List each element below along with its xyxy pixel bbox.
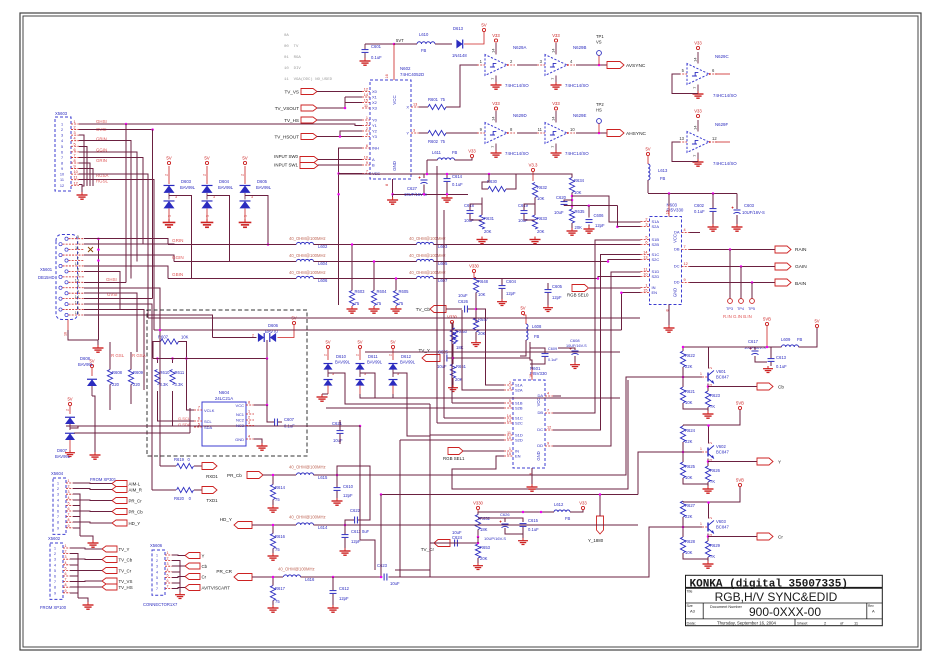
wire — [339, 173, 533, 175]
resistor R621 — [680, 387, 695, 405]
svg-text:2: 2 — [74, 126, 76, 130]
wire — [588, 224, 590, 226]
svg-text:INPUT SW1: INPUT SW1 — [274, 163, 298, 168]
capacitor C620 — [554, 195, 568, 215]
svg-text:V33: V33 — [579, 501, 587, 506]
svg-text:1N4148: 1N4148 — [452, 53, 467, 58]
power 5V — [481, 23, 486, 32]
svg-text:12pF: 12pF — [506, 291, 516, 296]
svg-text:VCC: VCC — [392, 95, 397, 104]
svg-text:5: 5 — [198, 423, 200, 427]
resistor R648 — [473, 278, 488, 298]
svg-text:74HC14/SO: 74HC14/SO — [713, 161, 737, 166]
svg-text:3: 3 — [709, 534, 713, 536]
svg-text:5V: 5V — [520, 306, 525, 311]
svg-text:RGB SEL1: RGB SEL1 — [443, 456, 465, 461]
svg-text:R629: R629 — [710, 543, 721, 548]
svg-text:C605: C605 — [552, 284, 563, 289]
svg-text:DD: DD — [674, 280, 680, 285]
wire — [153, 358, 267, 360]
svg-text:9: 9 — [366, 161, 368, 165]
junction — [272, 524, 275, 527]
capacitor C608 — [566, 338, 587, 355]
svg-text:20K: 20K — [575, 225, 583, 230]
svg-text:R624: R624 — [685, 428, 696, 433]
svg-text:6: 6 — [509, 404, 511, 408]
svg-text:10: 10 — [643, 273, 647, 277]
svg-text:75: 75 — [275, 599, 280, 604]
svg-text:15: 15 — [643, 289, 647, 293]
junction — [391, 193, 394, 196]
wire — [690, 282, 776, 284]
svg-text:10: 10 — [75, 300, 79, 304]
wire — [452, 378, 454, 385]
svg-text:40_OHM@100MHz: 40_OHM@100MHz — [289, 465, 326, 470]
wire — [690, 232, 701, 234]
wire — [393, 44, 395, 80]
svg-text:2: 2 — [356, 354, 360, 356]
inductor L604 — [289, 253, 328, 266]
wire — [272, 500, 274, 506]
junction — [272, 474, 275, 477]
junction — [540, 511, 543, 514]
power V33 — [552, 33, 560, 42]
svg-text:DC: DC — [537, 427, 543, 432]
ground — [88, 540, 99, 547]
wire — [522, 527, 524, 538]
gate N629F 74HC14 — [679, 120, 737, 166]
svg-text:0.1uF: 0.1uF — [528, 527, 539, 532]
svg-text:9: 9 — [77, 284, 79, 288]
svg-text:L614: L614 — [318, 525, 328, 530]
wire — [84, 310, 144, 390]
svg-text:GBIN: GBIN — [172, 272, 183, 277]
wire — [84, 266, 168, 279]
wire — [318, 164, 362, 166]
wire — [395, 543, 466, 570]
wire — [172, 583, 180, 590]
svg-text:5V: 5V — [390, 340, 395, 345]
svg-text:8: 8 — [77, 268, 79, 272]
svg-text:X3: X3 — [372, 106, 378, 111]
svg-text:C607: C607 — [284, 417, 295, 422]
svg-text:1: 1 — [645, 284, 647, 288]
wire — [576, 64, 607, 66]
wire — [474, 273, 476, 278]
flag TV_HSOUT — [274, 134, 317, 140]
wire — [84, 298, 153, 300]
wire — [588, 206, 590, 218]
svg-text:FB: FB — [797, 337, 803, 342]
svg-text:1: 1 — [57, 482, 59, 486]
svg-text:8: 8 — [248, 401, 250, 405]
wire — [212, 337, 256, 339]
resistor R633 — [532, 215, 547, 234]
svg-text:C609: C609 — [548, 347, 557, 351]
wire — [564, 205, 617, 207]
net GBIN label — [172, 272, 183, 277]
svg-text:2: 2 — [61, 128, 63, 132]
ground — [65, 450, 75, 456]
wire — [524, 204, 535, 210]
svg-text:4: 4 — [167, 568, 169, 572]
svg-text:R616: R616 — [275, 534, 286, 539]
wire — [708, 425, 710, 444]
wire — [336, 475, 338, 487]
svg-text:8: 8 — [68, 518, 70, 522]
svg-text:5V: 5V — [204, 156, 209, 161]
resistor R622 — [680, 351, 695, 369]
wire — [73, 517, 80, 536]
ic N601 PI5V330 — [504, 366, 553, 475]
junction — [668, 192, 671, 195]
svg-text:11: 11 — [364, 104, 368, 108]
flag RGB SEL1 — [443, 448, 465, 462]
svg-text:VCLK: VCLK — [204, 408, 215, 413]
svg-text:6: 6 — [198, 417, 200, 421]
wire — [375, 397, 620, 399]
svg-text:2: 2 — [709, 517, 713, 519]
resistor R630 — [487, 179, 506, 192]
svg-text:GHSI: GHSI — [106, 277, 117, 282]
resistor R609 — [128, 370, 143, 388]
flag Cr — [757, 533, 783, 540]
wire — [345, 520, 354, 525]
wire — [530, 342, 532, 369]
junction — [151, 128, 154, 131]
svg-text:R633: R633 — [537, 216, 548, 221]
wire — [452, 402, 504, 404]
resistor R629 — [705, 541, 720, 559]
flag TV_VSOUT — [275, 105, 317, 111]
ground — [328, 605, 339, 612]
svg-text:Thursday, September 16, 2004: Thursday, September 16, 2004 — [717, 620, 777, 625]
svg-text:1: 1 — [700, 447, 702, 451]
wire — [574, 356, 576, 362]
svg-text:BAIN: BAIN — [795, 281, 807, 287]
flag TV_Cb in — [416, 306, 446, 313]
svg-text:TV_VSOUT: TV_VSOUT — [275, 106, 299, 111]
wire — [78, 598, 88, 602]
svg-text:Title: Title — [687, 590, 693, 594]
ground — [708, 224, 719, 231]
svg-text:2: 2 — [509, 381, 511, 385]
svg-text:1: 1 — [700, 372, 702, 376]
wire — [189, 408, 191, 433]
svg-text:TV_VS: TV_VS — [284, 90, 299, 95]
inductor L607 — [409, 270, 448, 283]
wire — [97, 239, 99, 340]
wire — [682, 501, 684, 502]
wire — [365, 351, 620, 353]
svg-text:12pF: 12pF — [351, 539, 361, 544]
svg-text:INH: INH — [372, 146, 379, 151]
svg-text:D611: D611 — [368, 354, 378, 359]
wire — [360, 426, 375, 570]
svg-text:75: 75 — [275, 547, 280, 552]
junction — [395, 277, 398, 280]
ground — [567, 228, 578, 235]
net G.SCL — [178, 416, 191, 421]
power V33 — [694, 41, 702, 50]
svg-text:1: 1 — [54, 547, 56, 551]
net GRIN — [96, 158, 107, 163]
ground — [703, 486, 714, 493]
svg-text:L616: L616 — [305, 577, 315, 582]
net GGIN — [96, 148, 107, 153]
svg-text:2: 2 — [389, 354, 393, 356]
svg-text:10K: 10K — [478, 292, 486, 297]
wire — [461, 310, 463, 370]
wire — [520, 340, 526, 356]
wire — [73, 499, 112, 502]
wire — [436, 166, 438, 423]
svg-text:GND: GND — [392, 161, 397, 171]
junction — [266, 404, 269, 407]
ic N604 24LC21A — [194, 390, 254, 446]
svg-text:40_OHM@100MHz: 40_OHM@100MHz — [289, 236, 326, 241]
svg-text:FROM XP301: FROM XP301 — [90, 477, 117, 482]
svg-text:75: 75 — [275, 497, 280, 502]
svg-text:R628: R628 — [685, 539, 696, 544]
wire — [84, 239, 168, 245]
junction — [97, 237, 100, 240]
svg-text:V33: V33 — [694, 41, 702, 46]
flag PR_Cr — [112, 498, 142, 504]
capacitor C602 — [694, 203, 717, 214]
wire — [682, 367, 684, 387]
power 5V — [291, 316, 296, 325]
wire — [668, 194, 670, 206]
svg-text:6: 6 — [57, 510, 59, 514]
power 5VB — [736, 478, 744, 487]
svg-text:X2: X2 — [372, 100, 378, 105]
svg-text:10: 10 — [570, 127, 575, 132]
svg-text:3.3K: 3.3K — [160, 382, 169, 387]
wire — [571, 223, 573, 228]
flag Y — [757, 458, 781, 465]
svg-text:16: 16 — [529, 374, 533, 378]
svg-text:10UF/16V-S: 10UF/16V-S — [742, 210, 765, 215]
wire — [523, 511, 554, 513]
capacitor C601 — [360, 44, 383, 65]
power V33 — [492, 101, 500, 110]
svg-text:R602 75: R602 75 — [428, 139, 446, 144]
svg-text:40_OHM@100MHz: 40_OHM@100MHz — [278, 567, 315, 572]
svg-text:2: 2 — [66, 409, 70, 411]
svg-text:5VB: 5VB — [763, 317, 771, 322]
wire — [755, 346, 782, 348]
wire — [736, 215, 738, 224]
junction — [571, 195, 574, 198]
wire — [462, 370, 504, 390]
wire — [430, 377, 683, 475]
svg-text:BAV99L: BAV99L — [218, 185, 234, 190]
svg-text:22K: 22K — [685, 364, 693, 369]
junction — [616, 225, 619, 228]
svg-text:C626: C626 — [458, 299, 469, 304]
wire — [314, 261, 417, 263]
inductor L614 — [289, 515, 328, 531]
svg-text:DC: DC — [674, 264, 680, 269]
wire — [130, 385, 132, 405]
svg-text:4: 4 — [54, 563, 56, 567]
wire — [79, 169, 93, 187]
wire — [463, 450, 504, 452]
flag PR_Cb — [112, 509, 143, 515]
svg-text:12: 12 — [712, 136, 717, 141]
label CONNECTOR1X7 — [143, 602, 178, 607]
wire — [360, 394, 375, 398]
svg-text:Y: Y — [202, 554, 205, 559]
svg-text:FB: FB — [421, 48, 427, 53]
diode D606 BAV70 — [252, 323, 279, 342]
power V3.3 — [528, 163, 538, 172]
wire — [73, 521, 112, 524]
svg-text:SCL: SCL — [204, 419, 213, 424]
flag HD_Y in — [220, 517, 252, 529]
junction — [607, 260, 610, 263]
svg-text:NC3: NC3 — [236, 423, 245, 428]
wire — [70, 580, 102, 583]
net GVSI — [96, 127, 107, 132]
capacitor C613 — [768, 355, 788, 369]
ground — [471, 340, 481, 346]
svg-text:R603: R603 — [355, 289, 366, 294]
svg-text:N629C: N629C — [715, 54, 729, 59]
wire — [501, 289, 503, 299]
svg-text:R631: R631 — [484, 216, 495, 221]
net RGSL label — [111, 353, 125, 358]
svg-text:R610: R610 — [160, 370, 171, 375]
wire — [74, 432, 190, 434]
capacitor C607 — [275, 417, 296, 429]
svg-text:20K: 20K — [537, 229, 545, 234]
svg-text:7: 7 — [74, 153, 76, 157]
svg-text:3: 3 — [509, 386, 511, 390]
wire — [395, 279, 397, 291]
wire — [434, 278, 599, 280]
svg-text:40_OHM@100MHz: 40_OHM@100MHz — [409, 270, 446, 275]
svg-text:S2C: S2C — [652, 257, 660, 262]
wire — [481, 198, 483, 216]
wire — [254, 404, 267, 406]
svg-text:10K: 10K — [181, 335, 189, 340]
svg-text:11: 11 — [74, 176, 78, 180]
wire — [322, 393, 328, 395]
wire — [168, 244, 296, 246]
junction — [682, 526, 685, 529]
svg-text:Y: Y — [406, 131, 409, 136]
svg-text:5VT: 5VT — [396, 38, 404, 43]
gate N629C 74HC14 — [679, 52, 737, 98]
svg-text:BC847: BC847 — [716, 450, 729, 455]
flag HD_Y — [112, 520, 140, 526]
wire — [482, 174, 489, 189]
wire — [547, 293, 549, 305]
wire — [736, 194, 738, 210]
svg-text:4: 4 — [248, 435, 250, 439]
wire — [434, 244, 641, 246]
capacitor C624 — [452, 530, 463, 547]
wire — [683, 478, 708, 484]
svg-text:TP5: TP5 — [748, 307, 755, 311]
svg-text:3: 3 — [709, 459, 713, 461]
wire — [553, 395, 561, 397]
wire — [443, 210, 445, 418]
title block — [686, 575, 883, 625]
svg-text:Document Number: Document Number — [710, 605, 743, 609]
junction — [740, 265, 743, 268]
testpoint TP4 — [737, 299, 744, 311]
ground — [477, 237, 488, 244]
capacitor C625 — [437, 350, 449, 370]
junction — [477, 536, 480, 539]
wire — [690, 249, 776, 251]
flag TV_Cr2 — [102, 568, 132, 574]
svg-text:7: 7 — [547, 409, 549, 413]
net G.SDA — [178, 422, 191, 427]
svg-text:18K: 18K — [480, 527, 488, 532]
wire — [799, 328, 818, 347]
svg-text:GAIN: GAIN — [795, 264, 807, 270]
svg-text:9: 9 — [54, 591, 56, 595]
svg-text:L615: L615 — [318, 475, 328, 480]
svg-text:R620 0: R620 0 — [174, 496, 192, 501]
wire — [435, 43, 452, 45]
svg-text:3: 3 — [65, 555, 67, 559]
flag TV_VS2 — [102, 578, 132, 584]
svg-text:6: 6 — [167, 579, 169, 583]
svg-text:18K: 18K — [456, 345, 464, 350]
diode D605 BAV99L — [239, 156, 272, 228]
junction — [380, 493, 383, 496]
resistor R653 — [475, 544, 490, 561]
inductor L610 — [417, 32, 435, 53]
junction — [588, 204, 591, 207]
junction — [682, 346, 685, 349]
power 5V — [645, 147, 650, 156]
ground — [442, 195, 453, 202]
wire — [79, 157, 143, 244]
ground — [268, 553, 279, 560]
svg-text:2: 2 — [324, 354, 328, 356]
wire — [314, 244, 417, 246]
wire — [708, 536, 757, 538]
svg-text:BAV99L: BAV99L — [78, 362, 94, 367]
svg-text:5VB: 5VB — [736, 478, 744, 483]
svg-text:4: 4 — [74, 137, 76, 141]
wire — [707, 407, 709, 411]
svg-text:7: 7 — [54, 580, 56, 584]
svg-text:5: 5 — [156, 576, 158, 580]
wire — [172, 391, 174, 426]
svg-text:2: 2 — [248, 416, 250, 420]
svg-text:C608: C608 — [570, 338, 580, 343]
flag Y_1880 — [588, 516, 604, 543]
wire — [73, 505, 80, 536]
svg-text:S2A: S2A — [652, 224, 660, 229]
junction — [185, 357, 188, 360]
svg-text:20K: 20K — [484, 229, 492, 234]
wire — [66, 425, 360, 427]
wire — [84, 315, 212, 338]
svg-text:40_OHM@100MHz: 40_OHM@100MHz — [289, 515, 326, 520]
svg-text:CONNECTOR1X7: CONNECTOR1X7 — [143, 602, 178, 607]
svg-text:Cr: Cr — [202, 575, 207, 580]
junction — [380, 576, 383, 579]
svg-text:12: 12 — [364, 87, 368, 91]
